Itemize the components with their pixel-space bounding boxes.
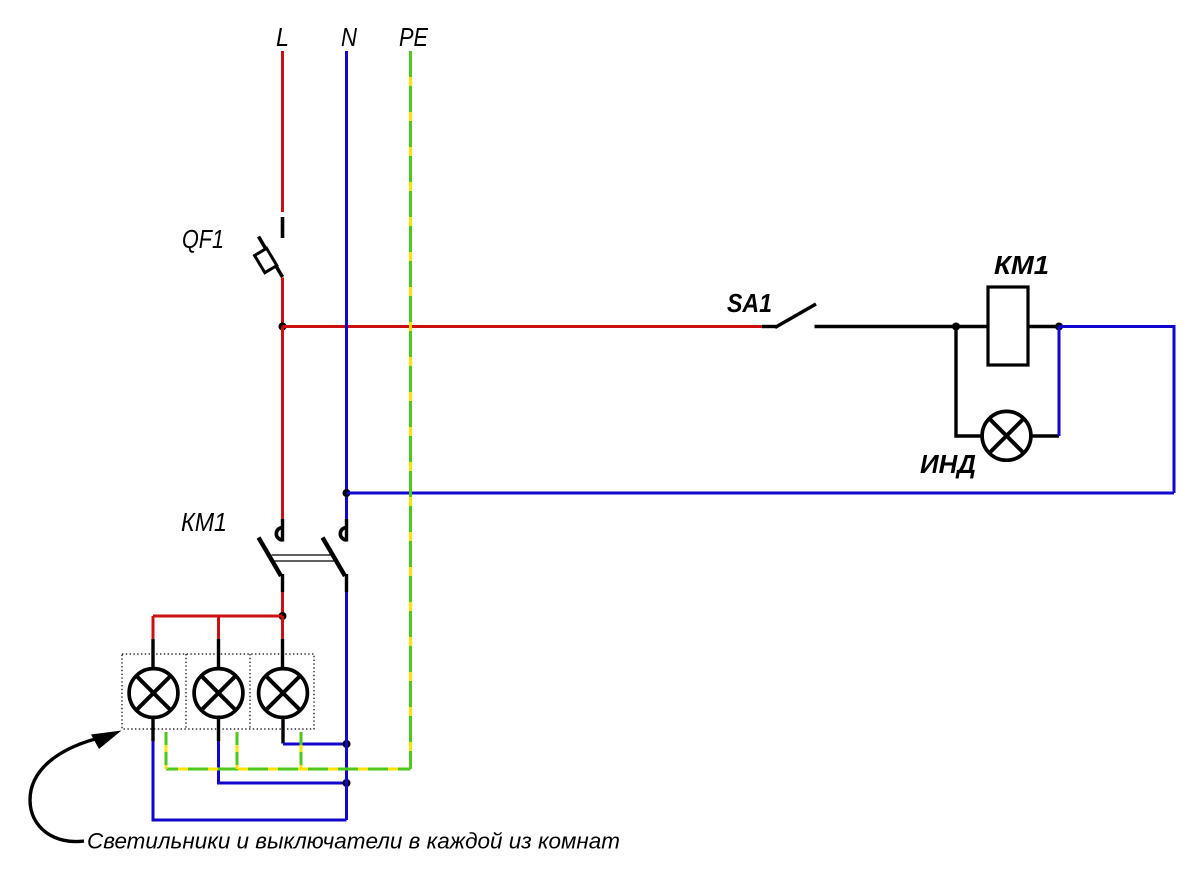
wire red QF1 output to junction [281,278,284,328]
wire red vertical to KM1 contact [281,327,284,520]
wire black to coil [956,325,988,328]
svg-text:QF1: QF1 [182,224,224,254]
wire N blue vertical top [345,51,348,519]
lamp IND indicator [982,411,1031,460]
wire blue indicator to junction [1058,327,1061,437]
wire red contact to lamp bus junction [281,592,284,616]
node junction dot lamp bus [279,612,287,620]
svg-text:PE: PE [399,22,429,52]
node junction dot coil right [1055,323,1063,331]
wire red horizontal to SA1 [283,325,763,328]
wire black SA1 to coil junction [815,325,957,328]
svg-text:Светильники и выключатели в ка: Светильники и выключатели в каждой из ко… [87,829,620,854]
wire red lamp bus horizontal [153,615,283,618]
switch SA1 [762,304,816,328]
lamp EL1 [129,669,178,718]
wire PE horizontal bottom [166,768,411,771]
wire PE stub room 1 [165,732,168,769]
node junction dot coil left [952,323,960,331]
svg-text:N: N [341,22,357,52]
wire PE stub room 3 [300,732,303,769]
room boxes dotted outline [122,654,314,729]
breaker QF1 blade with square [255,237,283,278]
wire PE stub room 2 [236,732,239,769]
coil KM1 [988,287,1028,365]
contactor KM1 contact 1 (phase) [259,519,283,592]
node junction dot N coil return [343,489,351,497]
wire N blue vertical bottom [345,592,348,820]
wire black indicator branch left [956,327,982,437]
wire black tail lamp 3 [281,719,284,744]
arrow callout [30,731,122,842]
wire black lead lamp 2 [217,639,220,668]
wire PE vertical [409,51,412,769]
contactor KM1 contact 2 (neutral) [323,519,347,592]
node junction dot QF1 out [279,323,287,331]
wire black tail lamp 2 [217,719,220,742]
breaker QF1 fixed contact tick [281,217,285,238]
wire blue return lamp 1 [153,741,347,820]
svg-text:L: L [276,22,289,52]
wire blue return lamp 3 [283,743,347,746]
svg-text:SA1: SA1 [727,288,772,318]
svg-text:КМ1: КМ1 [181,507,227,537]
node junction dot N lamp2 [343,779,351,787]
wire black indicator branch right [1031,434,1059,437]
wire red drop lamp 2 [217,616,220,639]
svg-text:КМ1: КМ1 [994,250,1049,280]
lamp EL3 [259,669,308,718]
wire black lead lamp 3 [281,639,284,668]
wire blue return lamp 2 [219,741,347,783]
wire black coil to junction right [1028,325,1059,328]
wire red drop lamp 3 [281,616,284,639]
wire blue coil return horizontal [347,492,1175,495]
wire blue right loop [1059,327,1174,494]
contactor KM1 mechanical link [272,555,335,561]
wire black lead lamp 1 [151,639,154,668]
wire black tail lamp 1 [151,719,154,742]
wire red drop lamp 1 [152,616,155,639]
wire L phase red vertical top [281,51,284,212]
node junction dot N lamp3 [343,740,351,748]
svg-text:ИНД: ИНД [920,449,976,479]
lamp EL2 [194,669,243,718]
